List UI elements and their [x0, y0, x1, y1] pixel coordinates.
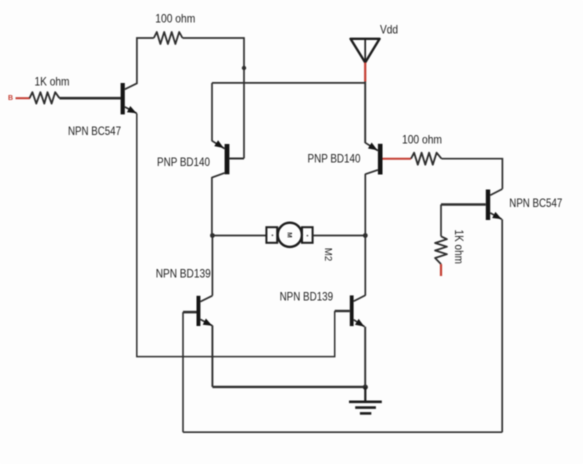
wire: vertical down to Q2 base: [243, 37, 245, 158]
wire: R3 right then down to Q6 collector: [442, 159, 503, 189]
resistor R3 100 ohm (right): [402, 133, 442, 165]
junction node left (motor): [210, 233, 215, 238]
wire: R1 to Q1 base: [60, 97, 121, 100]
svg-text:PNP BD140: PNP BD140: [308, 152, 361, 166]
wire: motor to right node: [313, 235, 366, 237]
wire: Q6 base down to R4: [440, 205, 442, 237]
resistor R4 1K ohm (vertical, right): [435, 230, 466, 265]
wire: Vdd column down to Q3 emitter: [364, 82, 366, 144]
wire: red segment below R4: [440, 264, 442, 276]
ground: [349, 387, 382, 413]
power Vdd: [351, 23, 399, 63]
svg-text:M: M: [286, 232, 293, 237]
transistor Q4 NPN BD139 (left): [156, 267, 213, 327]
wire: bottom rail: [183, 431, 502, 433]
svg-text:NPN BD139: NPN BD139: [280, 290, 334, 304]
wire: left node down to Q4 collector: [211, 236, 213, 296]
node B (input terminal, red): [8, 95, 30, 102]
wire: top rail to Vdd column: [212, 82, 365, 84]
wire: Q3 base red link to R3: [383, 158, 412, 160]
wire: Q3 collector down to right motor node: [364, 174, 366, 236]
wire: Q6 emitter down right side: [501, 219, 503, 432]
svg-text:1K ohm: 1K ohm: [452, 230, 466, 265]
svg-text:100 ohm: 100 ohm: [155, 12, 195, 26]
svg-text:1K ohm: 1K ohm: [35, 75, 70, 89]
transistor Q5 NPN BD139 (right): [280, 290, 366, 327]
resistor R1 1K ohm (left): [30, 75, 70, 104]
svg-text:B: B: [8, 95, 13, 102]
transistor Q3 PNP BD140 (right): [308, 143, 383, 175]
wire: Q1 emitter rail down, right, and up to Q5 base: [137, 114, 335, 357]
wire: Q5 emitter down to ground node: [364, 327, 366, 387]
wire: Q2 collector down to left motor node: [211, 177, 213, 236]
svg-text:NPN BD139: NPN BD139: [156, 267, 211, 281]
transistor Q6 NPN BC547 (right): [441, 189, 563, 220]
svg-text:Vdd: Vdd: [380, 23, 398, 37]
svg-text:NPN BC547: NPN BC547: [509, 196, 562, 210]
transistor Q1 NPN BC547 (left): [68, 83, 137, 138]
wire: rail down to Q2 emitter: [211, 83, 213, 141]
junction ground node: [363, 385, 368, 390]
wire: Q4 base down to bottom rail: [182, 312, 184, 432]
svg-text:PNP BD140: PNP BD140: [157, 155, 210, 169]
svg-text:M2: M2: [322, 248, 334, 262]
svg-text:NPN BC547: NPN BC547: [68, 124, 121, 138]
transistor Q2 PNP BD140 (left): [157, 140, 244, 177]
wire: Q4 emitter down and right to ground node: [212, 326, 365, 387]
resistor R2 100 ohm (top): [154, 12, 196, 45]
motor M2: [266, 223, 334, 262]
svg-text:100 ohm: 100 ohm: [402, 133, 442, 147]
junction node right (motor): [363, 233, 368, 238]
wire: left node to motor: [212, 235, 266, 237]
wire: red segment below Vdd: [364, 63, 366, 82]
wire: right node down to Q5 collector: [364, 236, 366, 296]
wire: R2 to top-right corner: [183, 37, 245, 39]
junction dot on vertical wire: [242, 66, 246, 70]
wire: Q1 collector up to 100 ohm: [137, 38, 154, 84]
